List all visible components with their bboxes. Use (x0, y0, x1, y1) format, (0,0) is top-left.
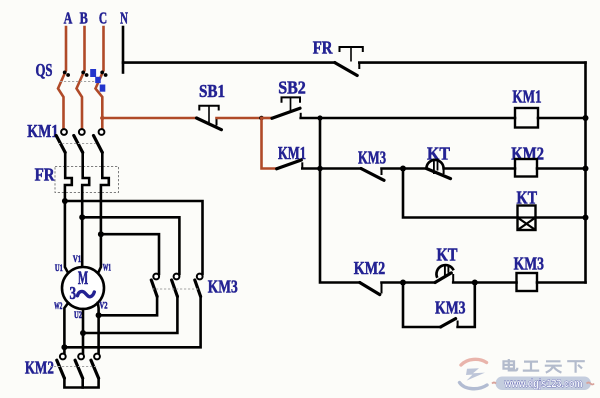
contact KM3 NC blade (361, 169, 384, 181)
wire KT coil to rail (536, 216, 586, 219)
wire neutral N vertical (122, 27, 125, 73)
relay FR NC contact blade (335, 63, 357, 76)
label KM3 NC contact (358, 147, 386, 167)
watermark left tilde (492, 383, 496, 384)
watermark logo bottom crescent (460, 383, 488, 389)
contact KM1 aux seat tick (301, 162, 303, 168)
svg-text:V1: V1 (73, 255, 81, 265)
node KM3 latch branch junction (400, 280, 406, 286)
coil KM3 (517, 273, 538, 291)
label KM1 main contacts (27, 121, 58, 141)
artifact blue square 2 (95, 77, 101, 83)
wire KT NO to KM3 coil (453, 281, 516, 284)
FR heater element B with wire to motor V1 (82, 153, 89, 268)
pushbutton SB2 seat tick (300, 113, 302, 118)
label KM2 NO contact (354, 258, 385, 278)
wire B junction to KM3 pole 2 (82, 217, 179, 274)
watermark char tian (545, 361, 562, 372)
watermark url pill (496, 377, 592, 391)
switch QS pole A contact marks (63, 71, 70, 77)
motor label 3 (70, 283, 77, 303)
svg-text:C: C (99, 9, 107, 28)
relay FR actuator (340, 47, 363, 62)
contactor KM3 pole 3 terminal (197, 274, 203, 280)
KM3 linkage dashed line (152, 288, 198, 290)
wire A junction to KM3 pole 3 (65, 201, 203, 274)
svg-text:B: B (80, 9, 88, 28)
node phase C to delta wire (98, 231, 104, 237)
node phase B to delta wire (79, 214, 85, 220)
pushbutton SB1 seat tick (216, 118, 218, 126)
contactor KM3 pole 3 blade and wire to W2 (64, 280, 200, 347)
contactor KM1 pole A terminal (61, 129, 67, 135)
wire latch branch down (262, 118, 278, 169)
contactor KM3 pole 1 blade and wire to V2 (99, 280, 158, 315)
wire rung2 to KM3 NC (320, 167, 361, 170)
contact KM1 aux NO blade (277, 160, 302, 169)
svg-text:W2: W2 (54, 302, 62, 312)
artifact blue square 1 (90, 69, 96, 77)
motor terminal label V1 (73, 255, 81, 265)
svg-text:W1: W1 (103, 264, 111, 274)
wire N to FR contact (123, 61, 335, 64)
wire KM2 coil to rail (537, 167, 586, 170)
contact KT delay arc (426, 159, 443, 175)
svg-text:KM2: KM2 (354, 258, 385, 278)
label KM2 coil (511, 143, 544, 163)
label KM2 star contacts (25, 358, 54, 378)
node latch rung2 junction (317, 166, 323, 172)
node U2 delta junction (80, 330, 86, 336)
watermark logo bolt (466, 368, 485, 380)
node SB2 branch junction (259, 116, 264, 121)
phase label A (64, 9, 73, 28)
wire node to KT delayed NO (403, 281, 435, 284)
contact KT delayed NO blade (435, 273, 451, 283)
node rail KT rung (583, 215, 589, 221)
node KT coil branch junction (400, 166, 406, 172)
contactor KM1 pole C terminal (99, 129, 105, 135)
artifact blue square 3 (100, 85, 106, 92)
KM2 linkage dashed line (50, 366, 97, 368)
svg-text:N: N (120, 9, 128, 28)
wire phase C with QS blade (96, 27, 104, 129)
node rail rung2 (583, 166, 589, 172)
wire KM3 latch return (458, 283, 475, 328)
pushbutton SB2 NO blade (272, 108, 300, 118)
label FR (35, 165, 56, 185)
motor tilde symbol (78, 291, 95, 296)
wire motor V2 down to KM2 (97, 303, 100, 354)
label KM3 latch contact (435, 297, 466, 317)
switch QS pole C contact marks (100, 71, 107, 77)
wire KM3 NC to KT node (382, 167, 404, 170)
wire phase A with QS blade (58, 27, 66, 129)
node control tap on C phase (100, 116, 104, 120)
node rail rung1 (583, 115, 589, 121)
label FR control contact (313, 37, 334, 57)
wire node to SB2 (262, 117, 273, 120)
label KT delayed NO contact (437, 244, 458, 264)
svg-text:KM3: KM3 (208, 277, 238, 297)
node V2 delta junction (96, 312, 102, 318)
contact KM3 NC seat tick (381, 169, 383, 176)
watermark char xia (567, 361, 585, 373)
svg-text:FR: FR (35, 165, 56, 185)
wire SB2 to KM1 coil (301, 117, 515, 120)
node KM3 latch rejoin (472, 280, 478, 286)
wire KT coil branch (403, 169, 518, 218)
contactor KM2 pole 2 terminal (78, 354, 84, 360)
watermark char gong (523, 362, 539, 371)
motor terminal label W1 (103, 264, 111, 274)
QS linkage dashed line (60, 81, 99, 83)
pushbutton SB1 actuator (199, 106, 218, 123)
svg-text:FR: FR (313, 37, 334, 57)
label KM3 main contacts (208, 277, 238, 297)
svg-text:KM3: KM3 (435, 297, 466, 317)
svg-text:KM3: KM3 (514, 254, 544, 274)
svg-text:www.dgjs123.com: www.dgjs123.com (504, 378, 583, 390)
contact KT delayed NC blade (426, 169, 450, 179)
svg-text:KM1: KM1 (512, 87, 541, 107)
KM1 linkage dashed line (58, 143, 96, 145)
contactor KM1 pole B terminal (79, 129, 85, 135)
svg-text:3: 3 (70, 283, 77, 303)
wire FR contact to right rail (359, 61, 585, 64)
wire KM1 coil to rail (538, 117, 586, 120)
watermark right tilde (587, 383, 595, 385)
label SB2 (278, 77, 306, 97)
svg-text:KT: KT (437, 244, 458, 264)
motor letter M (78, 268, 88, 289)
svg-text:KM1: KM1 (27, 121, 58, 141)
contactor KM2 pole 1 blade (57, 360, 65, 378)
contactor KM1 pole B blade (74, 136, 83, 153)
motor terminal label W2 (54, 302, 62, 312)
wire KM3 latch branch (403, 283, 441, 328)
contact KM2 NO blade (360, 283, 380, 295)
wire phase B with QS blade (77, 27, 85, 129)
svg-text:SB1: SB1 (199, 81, 225, 101)
relay FR NC contact seat tick (358, 63, 360, 69)
wire star point bus (64, 378, 98, 387)
contactor KM2 pole 3 blade (91, 360, 99, 378)
coil KT timer box (518, 206, 536, 231)
motor terminal label U1 (55, 264, 63, 274)
wire SB1 to node (217, 117, 262, 120)
neutral label N (120, 9, 128, 28)
label QS (36, 60, 53, 80)
label KT delayed NC contact (427, 143, 450, 163)
node W2 delta junction (61, 344, 67, 350)
wire C junction to KM3 pole 1 (101, 234, 159, 274)
FR heater element A with wire to motor U1 (65, 153, 72, 274)
contactor KM1 pole C blade (94, 136, 103, 153)
contact KT NC seat tick (443, 169, 445, 175)
contactor KM1 pole A blade (56, 136, 65, 153)
wire KM3 coil to rail (537, 281, 586, 284)
wire KM2 contact to KT node (382, 281, 404, 284)
motor M circle (62, 267, 104, 309)
thermal relay FR dashed box (55, 167, 119, 193)
wire latch vertical to rung4 (320, 118, 360, 283)
phase label C (99, 9, 107, 28)
contactor KM2 pole 3 terminal (94, 354, 100, 360)
contact KM3 latch NO blade (441, 319, 456, 327)
phase label B (80, 9, 88, 28)
label KM3 coil (514, 254, 544, 274)
svg-text:M: M (78, 268, 88, 289)
watermark logo top crescent (461, 359, 487, 365)
contact KM2 NO seat tick (381, 283, 383, 294)
watermark char dian (504, 359, 518, 370)
wire motor U2 down to KM2 (82, 309, 85, 354)
coil KM1 (515, 108, 538, 128)
contactor KM2 pole 2 blade (75, 360, 83, 378)
label KM1 aux contact (278, 143, 306, 163)
contactor KM3 pole 1 terminal (153, 274, 159, 280)
coil KM2 (515, 159, 537, 177)
label KM1 coil (512, 87, 541, 107)
svg-text:V2: V2 (100, 302, 108, 312)
motor terminal label V2 (100, 302, 108, 312)
wire control feed C phase rung1 (102, 117, 196, 120)
svg-text:KM2: KM2 (25, 358, 54, 378)
svg-text:U1: U1 (55, 264, 63, 274)
svg-text:A: A (64, 9, 73, 28)
svg-text:SB2: SB2 (278, 77, 306, 97)
FR heater element C with wire to motor W1 (98, 153, 109, 274)
svg-text:QS: QS (36, 60, 53, 80)
wire right rail (584, 63, 587, 283)
contactor KM3 pole 2 blade and wire to U2 (83, 280, 177, 333)
node latch top junction (317, 115, 322, 120)
node phase A to delta wire (62, 198, 68, 204)
wire motor W2 down to KM2 (64, 303, 68, 354)
contactor KM2 pole 1 terminal (60, 354, 66, 360)
svg-text:KM3: KM3 (358, 147, 386, 167)
switch QS pole B contact marks (81, 71, 88, 77)
svg-text:U2: U2 (74, 311, 82, 321)
contact KT NO delay arc (436, 265, 453, 278)
motor terminal label U2 (74, 311, 82, 321)
wire KM1 aux to latch vertical (302, 167, 320, 170)
label KT coil (517, 188, 538, 208)
wire KT contact to KM2 coil (444, 167, 515, 170)
contactor KM3 pole 2 terminal (174, 274, 180, 280)
wire node to KT contact (403, 167, 426, 170)
label SB1 (199, 81, 225, 101)
pushbutton SB2 actuator (282, 97, 301, 111)
contact KM3 latch seat tick (457, 321, 459, 328)
pushbutton SB1 NC blade (197, 118, 222, 130)
contact KT NO seat tick (452, 274, 454, 283)
